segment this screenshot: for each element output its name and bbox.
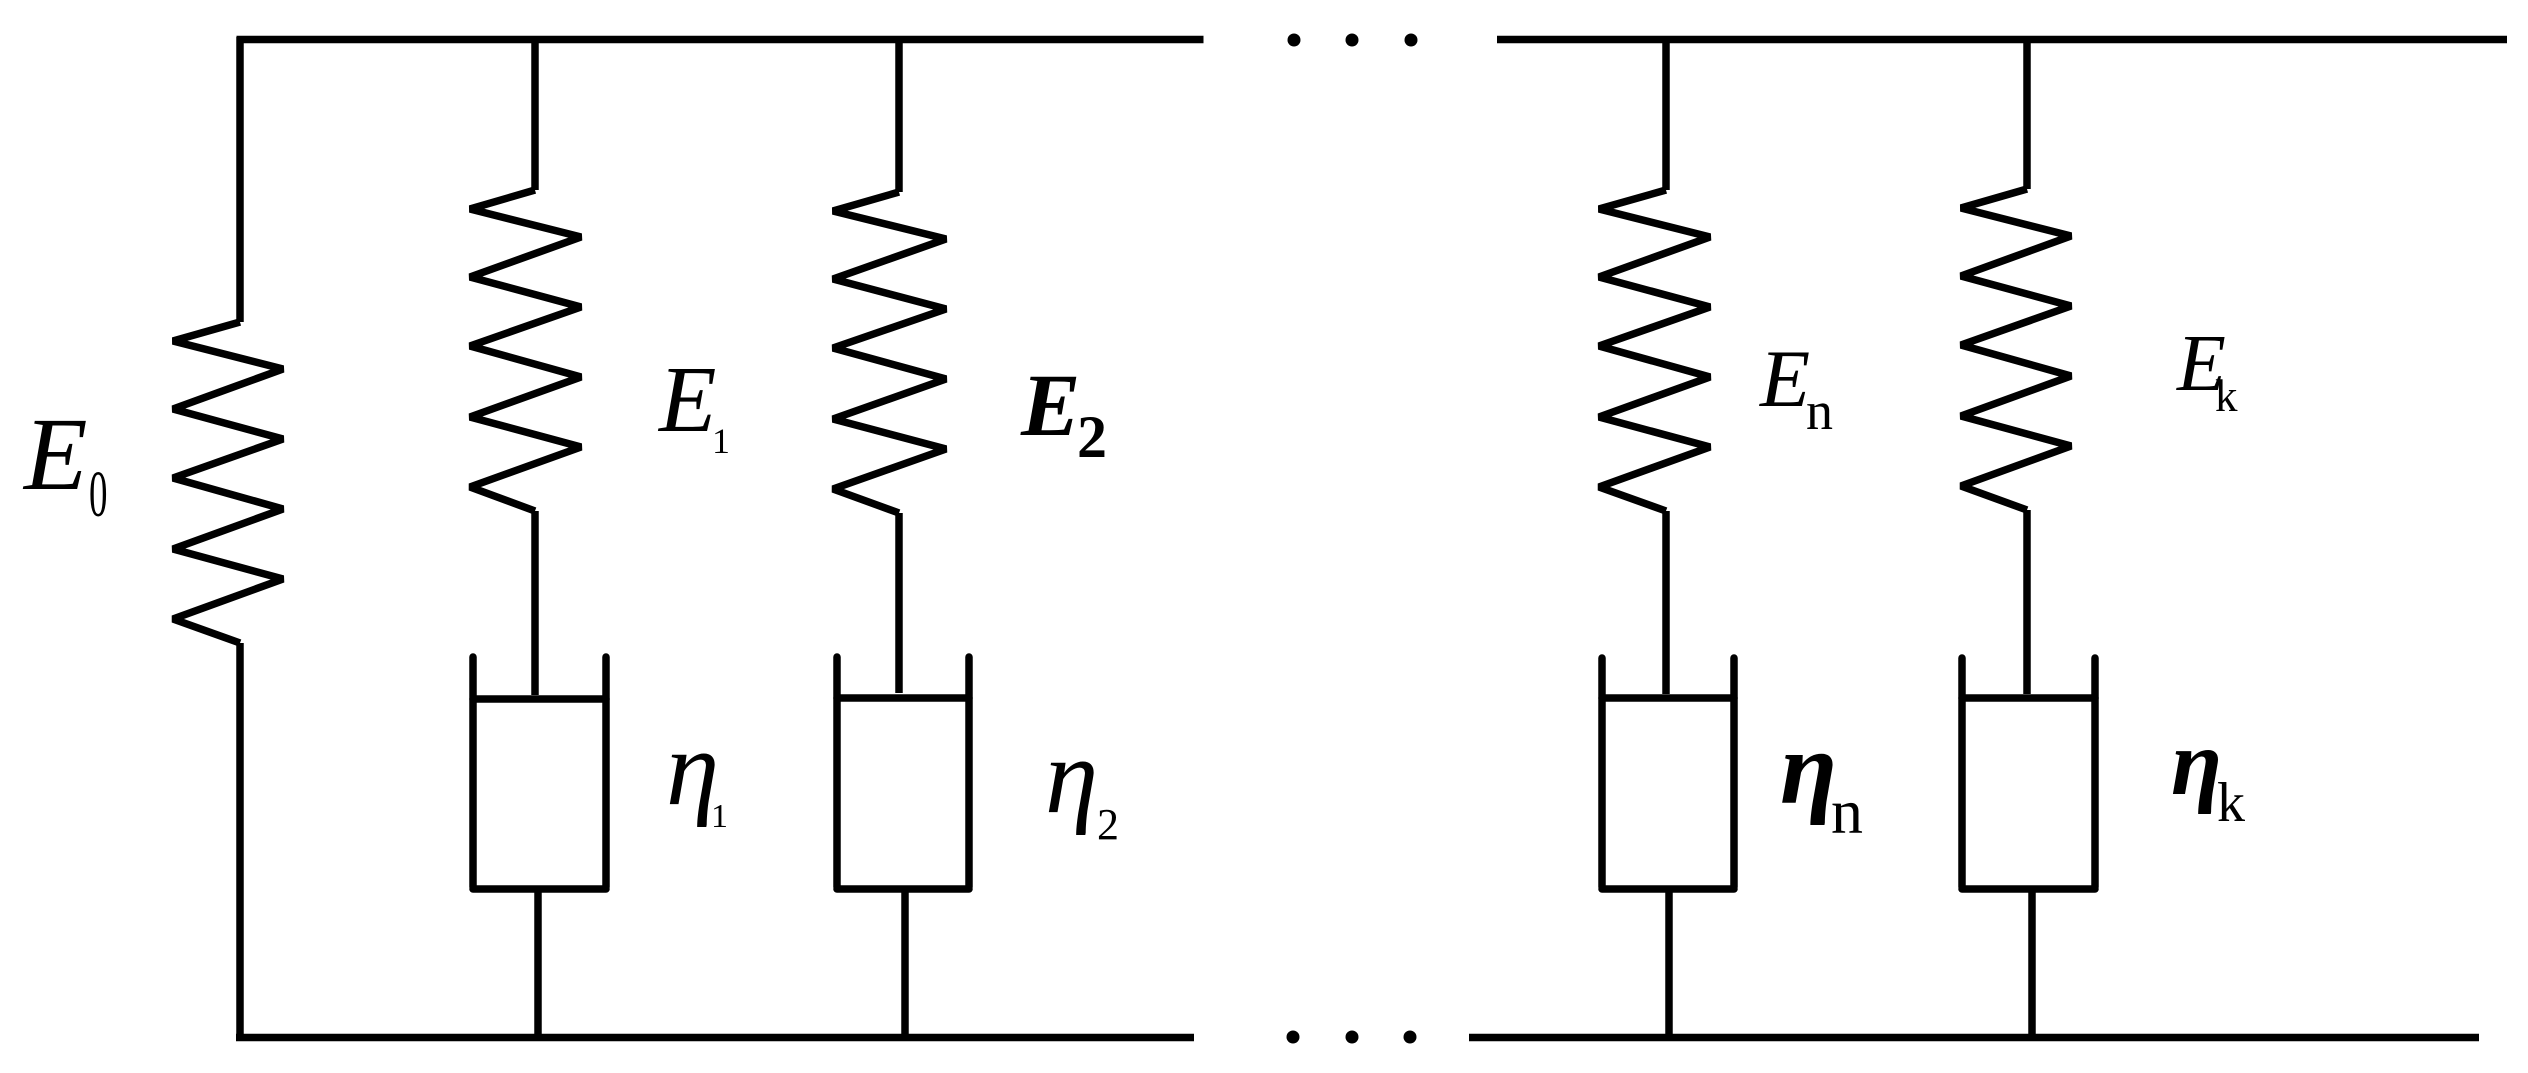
svg-text:2: 2 bbox=[1097, 800, 1119, 849]
spring E0 bbox=[173, 322, 283, 643]
wire: branch k top bbox=[2023, 37, 2031, 189]
label E0 bbox=[22, 397, 107, 531]
svg-text:E: E bbox=[1759, 333, 1810, 424]
svg-text:k: k bbox=[2215, 371, 2238, 421]
svg-text:1: 1 bbox=[711, 798, 728, 835]
wire: branch 2 middle bbox=[895, 513, 903, 693]
top rail right bbox=[1497, 36, 2507, 44]
damper etan bbox=[1602, 658, 1734, 889]
wire: branch n middle bbox=[1662, 511, 1670, 694]
svg-text:n: n bbox=[1806, 381, 1833, 441]
bottom ellipsis dots bbox=[1287, 1031, 1417, 1044]
svg-text:n: n bbox=[1831, 776, 1863, 847]
wire: branch n top bbox=[1662, 37, 1670, 190]
damper eta1 bbox=[473, 657, 606, 889]
svg-text:2: 2 bbox=[1077, 404, 1107, 470]
wire: branch 2 bottom bbox=[901, 889, 909, 1038]
label etan bbox=[1780, 711, 1863, 847]
svg-text:η: η bbox=[1045, 718, 1098, 836]
svg-text:1: 1 bbox=[712, 421, 730, 461]
label etak bbox=[2171, 712, 2245, 834]
bottom rail right bbox=[1469, 1034, 2479, 1042]
bottom rail left bbox=[236, 1034, 1194, 1042]
label E2 bbox=[1020, 357, 1107, 470]
label En bbox=[1759, 333, 1833, 441]
wire: branch 2 top bbox=[895, 37, 903, 192]
svg-text:k: k bbox=[2217, 772, 2245, 834]
svg-text:0: 0 bbox=[89, 457, 107, 531]
wire: branch 1 bottom bbox=[534, 889, 542, 1038]
top rail left bbox=[237, 36, 1204, 44]
damper eta2 bbox=[837, 657, 969, 889]
damper etak bbox=[1962, 658, 2095, 889]
wire: branch n bottom bbox=[1665, 889, 1673, 1038]
wire: branch k bottom bbox=[2028, 889, 2036, 1038]
svg-text:E: E bbox=[657, 348, 716, 452]
wire: left column top bbox=[236, 37, 244, 322]
wire: left column bottom bbox=[236, 643, 244, 1040]
label eta2 bbox=[1045, 718, 1119, 849]
label eta1 bbox=[666, 710, 728, 835]
spring En bbox=[1599, 190, 1710, 511]
wire: branch 1 top bbox=[531, 37, 539, 190]
svg-text:η: η bbox=[1780, 711, 1837, 826]
wire: branch k middle bbox=[2023, 510, 2031, 694]
top ellipsis dots bbox=[1288, 34, 1418, 47]
svg-text:E: E bbox=[1020, 357, 1080, 455]
wire: branch 1 middle bbox=[531, 511, 539, 695]
spring E2 bbox=[833, 192, 946, 513]
label Ek bbox=[2176, 320, 2238, 421]
spring Ek bbox=[1961, 189, 2071, 510]
spring E1 bbox=[470, 190, 581, 511]
svg-text:E: E bbox=[22, 397, 88, 512]
label E1 bbox=[657, 348, 730, 461]
svg-text:η: η bbox=[2171, 712, 2222, 815]
